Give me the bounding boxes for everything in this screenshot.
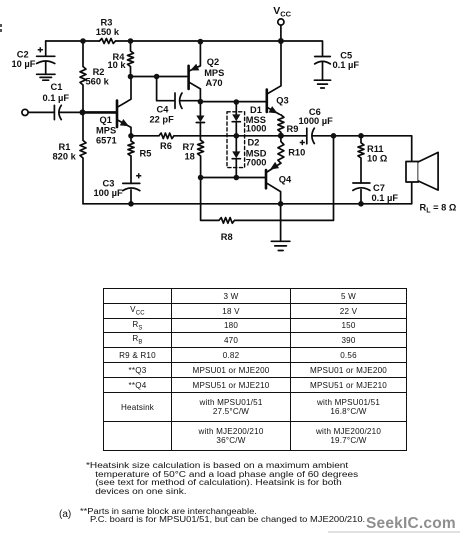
- svg-text:R3: R3: [101, 17, 113, 27]
- input terminal: [22, 109, 28, 115]
- svg-text:C4: C4: [157, 105, 170, 115]
- resistor R6: [131, 133, 307, 139]
- capacitor C7: [353, 183, 370, 204]
- svg-text:18: 18: [185, 152, 195, 162]
- svg-text:MPS: MPS: [204, 68, 224, 78]
- speaker: [406, 162, 418, 183]
- svg-text:Q3: Q3: [276, 95, 288, 105]
- transistor Q2: [187, 66, 190, 89]
- ground below Q4: [271, 204, 290, 251]
- svg-text:R5: R5: [140, 149, 152, 159]
- resistor R5: [128, 136, 134, 184]
- resistor R7: [198, 140, 204, 177]
- arrow Q4 emitter: [271, 163, 278, 169]
- junction D2 cathode Q4 base: [234, 175, 240, 181]
- wire top rail: [46, 41, 323, 56]
- svg-text:Q1: Q1: [100, 115, 112, 125]
- arrow Q1 emitter: [121, 120, 128, 126]
- capacitor C3: [123, 183, 140, 203]
- svg-text:10 µF: 10 µF: [12, 59, 36, 69]
- wire base Q4: [201, 177, 265, 179]
- plus C3: [136, 173, 141, 178]
- svg-text:10 k: 10 k: [108, 60, 127, 70]
- svg-text:0.1 µF: 0.1 µF: [43, 93, 70, 103]
- svg-text:Q4: Q4: [279, 175, 292, 185]
- resistor R1: [80, 112, 86, 203]
- dashed block D1 D2: [227, 112, 245, 168]
- junction R2 top rail: [80, 38, 86, 44]
- transistor Q4: [265, 170, 268, 188]
- svg-text:A70: A70: [206, 78, 223, 88]
- resistor R8 feedback: [201, 136, 334, 223]
- junction feedback tap: [331, 133, 337, 139]
- junction R11 top: [358, 133, 364, 139]
- svg-text:D1: D1: [250, 105, 262, 115]
- plus C2: [38, 47, 43, 52]
- svg-text:0.1 µF: 0.1 µF: [333, 60, 360, 70]
- resistor R4: [128, 41, 134, 77]
- wire speaker drop: [411, 136, 413, 204]
- svg-text:RL = 8 Ω: RL = 8 Ω: [420, 203, 457, 215]
- junction C3 bottom rail: [128, 201, 134, 207]
- diode triangle D2: [232, 151, 240, 158]
- svg-text:820 k: 820 k: [53, 151, 77, 161]
- svg-text:R10: R10: [288, 147, 305, 157]
- junction Q2 emitter top rail: [198, 39, 204, 45]
- arrow Q2 emitter: [191, 65, 198, 70]
- capacitor C2: [37, 41, 55, 74]
- junction R7-R8: [198, 175, 204, 181]
- svg-text:6571: 6571: [96, 135, 117, 145]
- svg-text:VCC: VCC: [273, 5, 291, 18]
- svg-text:MPS: MPS: [96, 126, 116, 136]
- resistor R2: [80, 41, 86, 112]
- ground under C5: [314, 80, 330, 88]
- svg-text:D2: D2: [248, 138, 260, 148]
- junction Vcc top rail: [278, 38, 284, 44]
- junction C1-R1-R2-Q1 base: [80, 109, 86, 115]
- wire base Q2: [131, 76, 187, 78]
- transistor Q3: [265, 90, 268, 112]
- plus C6: [300, 140, 305, 145]
- svg-text:C1: C1: [51, 82, 63, 92]
- junction C7 bottom rail: [358, 201, 364, 207]
- svg-text:R6: R6: [160, 141, 172, 151]
- junction Q1 emitter R5: [128, 133, 134, 139]
- junction D1 anode: [234, 99, 240, 105]
- capacitor C6: [306, 128, 308, 144]
- resistor R3: [100, 39, 116, 44]
- svg-text:C7: C7: [373, 183, 385, 193]
- junction R4-Q1 collector: [128, 74, 134, 80]
- svg-text:150 k: 150 k: [96, 27, 120, 37]
- svg-text:Q2: Q2: [207, 57, 219, 67]
- ground under C2: [37, 74, 55, 80]
- diode D1: [232, 102, 240, 136]
- transistor Q1: [83, 101, 118, 128]
- wire Q3 base: [200, 101, 265, 103]
- svg-text:R8: R8: [221, 232, 233, 242]
- svg-text:7000: 7000: [246, 158, 267, 168]
- resistor R9: [278, 115, 284, 136]
- svg-text:0.1 µF: 0.1 µF: [372, 193, 399, 203]
- wire bottom rail: [83, 203, 412, 205]
- svg-text:1000: 1000: [246, 123, 267, 133]
- svg-text:22 pF: 22 pF: [150, 115, 175, 125]
- arrow Q3 emitter: [269, 107, 276, 113]
- junction R3-R4 top rail: [128, 38, 134, 44]
- wire Vcc drop: [280, 25, 282, 41]
- diode unlabeled: [196, 102, 204, 141]
- svg-text:560 k: 560 k: [86, 77, 110, 87]
- resistor R11: [358, 136, 364, 183]
- svg-text:R9: R9: [287, 124, 299, 134]
- svg-text:1000 µF: 1000 µF: [299, 116, 334, 126]
- junction D1-D2 midpoint: [234, 133, 240, 139]
- capacitor C5: [315, 57, 331, 81]
- diode triangle unlabeled: [196, 116, 204, 123]
- junction R9-R10 output: [278, 133, 284, 139]
- capacitor C1: [28, 105, 54, 119]
- diode triangle D1: [232, 114, 240, 121]
- diode D2: [232, 136, 240, 178]
- svg-text:C3: C3: [103, 178, 115, 188]
- junction Q4 collector ground: [278, 201, 284, 207]
- svg-text:10 Ω: 10 Ω: [367, 153, 388, 163]
- junction Q2 collector: [198, 99, 204, 105]
- junction C4 tap: [154, 74, 160, 80]
- power Vcc: [278, 19, 284, 25]
- resistor R10: [278, 136, 284, 163]
- svg-text:100 µF: 100 µF: [94, 188, 123, 198]
- capacitor C4: [157, 77, 175, 109]
